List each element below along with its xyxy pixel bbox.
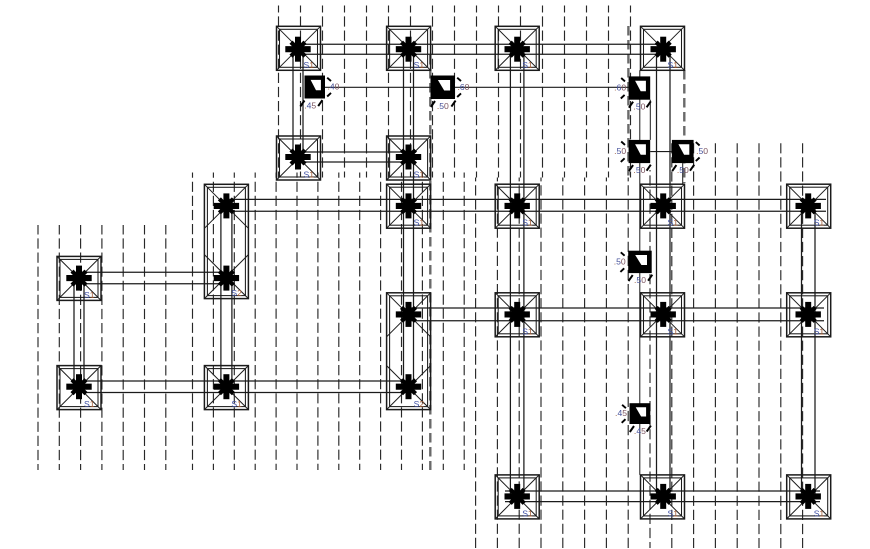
- column marker c5r3: [505, 193, 530, 218]
- svg-text:S1: S1: [414, 60, 425, 70]
- svg-text:S2: S2: [414, 399, 425, 409]
- svg-text:S1: S1: [522, 508, 533, 518]
- footing F-c6r3: [641, 184, 685, 228]
- footing F-c1r6: [57, 366, 101, 410]
- beam V5 (col c7): [802, 206, 816, 497]
- beam H5 (row5): [409, 308, 824, 321]
- column marker c2r6: [214, 374, 239, 399]
- column marker c4r3: [396, 193, 421, 218]
- svg-text:.50: .50: [437, 101, 449, 111]
- beam H1 (row1): [299, 44, 671, 54]
- svg-text:S1: S1: [668, 508, 679, 518]
- svg-text:S1: S1: [668, 218, 679, 228]
- footing F-c5r5: [495, 293, 539, 337]
- beam H3 (row3): [226, 199, 826, 211]
- svg-text:S1: S1: [84, 399, 95, 409]
- beam V1 (col c3): [293, 48, 303, 158]
- column marker c5r5: [505, 302, 530, 327]
- column section P1: [300, 76, 339, 111]
- gray dashed wall line at x684: [683, 70, 685, 183]
- section column line vertical x683: [682, 163, 684, 184]
- footing F-c7r5: [787, 293, 831, 337]
- hatch zone middle: [193, 173, 465, 471]
- column marker c4r1: [396, 37, 421, 62]
- svg-text:.50: .50: [633, 102, 645, 112]
- footing F-c6r5: [641, 293, 685, 337]
- footing F-c4r1: [387, 26, 431, 70]
- beam H4 (row4): [79, 272, 226, 284]
- svg-text:S1: S1: [814, 508, 825, 518]
- beam V4 (col c6): [657, 48, 671, 497]
- beam V7 (col c1): [74, 278, 84, 387]
- beam H6 (row6): [79, 381, 409, 393]
- svg-text:S1: S1: [414, 218, 425, 228]
- svg-text:S1: S1: [84, 290, 95, 300]
- svg-text:.40: .40: [328, 82, 340, 92]
- column marker c2r3: [214, 193, 239, 218]
- column marker c4r6: [396, 374, 421, 399]
- column marker c4r5: [396, 302, 421, 327]
- footing F-c6r1: [641, 26, 685, 70]
- gray dashed wall line at x628: [627, 26, 629, 178]
- footing F-c7r7: [787, 475, 831, 519]
- column marker c6r1: [651, 37, 676, 62]
- svg-text:.45: .45: [615, 408, 627, 418]
- column marker c2r4: [214, 266, 239, 291]
- column marker c1r6: [66, 374, 91, 399]
- column section P3: [614, 76, 651, 111]
- svg-text:S2: S2: [231, 288, 242, 298]
- hatch zone right upper-start: [476, 178, 629, 549]
- svg-text:S1: S1: [814, 218, 825, 228]
- svg-text:S1: S1: [231, 399, 242, 409]
- footing F-c5r1: [495, 26, 539, 70]
- svg-text:.60: .60: [458, 82, 470, 92]
- column section P7: [615, 403, 651, 436]
- svg-text:.50: .50: [677, 165, 689, 175]
- column marker c3r1: [285, 37, 310, 62]
- column marker c4r2: [396, 145, 421, 170]
- svg-text:S1: S1: [522, 326, 533, 336]
- footing F-c4r5r6 (combined): [387, 293, 431, 410]
- svg-text:.60: .60: [614, 83, 626, 93]
- footing F-c7r3: [787, 184, 831, 228]
- column marker c6r7: [651, 484, 676, 509]
- section tie line y87: [325, 86, 629, 88]
- hatch zone right mid-start: [649, 170, 651, 548]
- column marker c6r3: [651, 193, 676, 218]
- footing F-c3r2: [277, 136, 321, 180]
- svg-text:S1: S1: [522, 218, 533, 228]
- column marker c1r4: [66, 266, 91, 291]
- column marker c7r3: [796, 193, 821, 218]
- footing F-c5r7: [495, 475, 539, 519]
- svg-text:.50: .50: [634, 275, 646, 285]
- footing F-c5r3: [495, 184, 539, 228]
- svg-text:S1: S1: [304, 170, 315, 180]
- column marker c5r1: [505, 37, 530, 62]
- svg-text:.50: .50: [696, 146, 708, 156]
- column marker c7r5: [796, 302, 821, 327]
- svg-text:S1: S1: [814, 326, 825, 336]
- svg-text:.50: .50: [633, 165, 645, 175]
- beam H7 (row7): [505, 491, 820, 502]
- footing F-c4r2: [387, 136, 431, 180]
- beam H2 (row2): [299, 152, 409, 162]
- beam V6 (col c2): [221, 206, 232, 387]
- hatch zone top (slab hatch dashed lines): [279, 6, 631, 178]
- footing F-c4r3: [387, 184, 431, 228]
- section tie line y151: [650, 151, 672, 153]
- svg-text:S1: S1: [304, 60, 315, 70]
- hatch zone right full: [672, 141, 803, 548]
- beam V2 (col c4): [404, 48, 414, 387]
- footing F-c2r3r4 (combined): [204, 184, 248, 298]
- svg-text:S1: S1: [668, 60, 679, 70]
- footing F-c1r4: [57, 256, 101, 300]
- svg-text:.50: .50: [614, 146, 626, 156]
- column marker c3r2: [285, 145, 310, 170]
- footing F-c2r6: [204, 366, 248, 410]
- column marker c5r7: [505, 484, 530, 509]
- column marker c6r5: [651, 302, 676, 327]
- gray dashed wall line at x430: [429, 55, 431, 470]
- beam V3 (col c5): [510, 48, 524, 497]
- column section P4: [614, 140, 651, 175]
- svg-text:.45: .45: [634, 426, 646, 436]
- column section P5: [672, 140, 708, 175]
- svg-text:.45: .45: [304, 100, 316, 110]
- svg-text:S1: S1: [414, 170, 425, 180]
- column section P6: [614, 251, 653, 285]
- svg-text:.50: .50: [614, 257, 626, 267]
- svg-text:S1: S1: [668, 326, 679, 336]
- section column line vertical x650: [649, 100, 651, 140]
- column marker c7r7: [796, 484, 821, 509]
- hatch zone left: [38, 225, 166, 470]
- footing F-c6r7: [641, 475, 685, 519]
- svg-text:S1: S1: [522, 60, 533, 70]
- section column line vertical x640: [639, 70, 641, 475]
- column section P2: [431, 76, 470, 111]
- footing F-c3r1: [277, 26, 321, 70]
